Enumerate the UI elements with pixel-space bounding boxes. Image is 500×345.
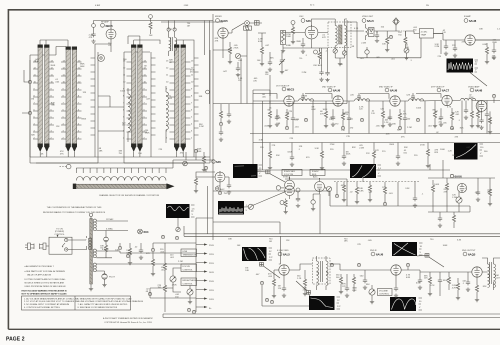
noise gate pot	[325, 186, 332, 196]
resistor R5a	[385, 34, 389, 52]
if grid line segments	[253, 94, 441, 99]
decoupling resistor R13	[426, 143, 430, 168]
trimmer TP	[235, 53, 247, 58]
ant terminal	[60, 164, 71, 169]
snd if label	[370, 250, 384, 257]
svg-text:1.2K: 1.2K	[384, 122, 389, 124]
tuner shield box 2	[124, 50, 210, 163]
capacitor C6	[453, 40, 457, 57]
osc caps pair	[319, 68, 329, 82]
svg-text:6.8K: 6.8K	[258, 41, 263, 43]
oscillator coil L2 loop chain	[128, 88, 130, 142]
grid resistor R43	[456, 278, 460, 300]
turret right parts	[183, 149, 207, 172]
osc adj resistor	[313, 50, 322, 67]
snd output label	[462, 250, 476, 257]
contact ticks wafer S1A right	[49, 62, 54, 139]
svg-text:12K: 12K	[424, 278, 428, 280]
snd tube drops	[283, 275, 285, 282]
socket circle	[98, 55, 105, 62]
wire tuner top	[40, 21, 213, 56]
divider cluster R9	[227, 104, 231, 123]
decoupling resistor R11	[320, 143, 324, 170]
svg-text:OSC: OSC	[299, 16, 304, 18]
resistor R6	[485, 43, 489, 64]
leader line from J	[362, 178, 364, 182]
leader glyph F	[260, 263, 281, 279]
if tube V6	[284, 96, 294, 106]
wire bottom tie lines	[30, 157, 210, 163]
oscillogram A	[447, 59, 488, 87]
svg-text:FOCUS: FOCUS	[183, 266, 191, 268]
svg-text:USED PROPER ALTERED IS SEE DES: USED PROPER ALTERED IS SEE DESIGN	[25, 285, 66, 288]
svg-text:MODELS WHEN DOTTED IN PARTS A: MODELS WHEN DOTTED IN PARTS ARE	[25, 281, 65, 284]
keyer resistor R27	[488, 184, 492, 206]
switch wafer S1C strip b	[137, 45, 142, 153]
peaking coil L10	[461, 98, 476, 100]
turret shaft bar	[73, 183, 175, 189]
svg-text:NOT TO OPERATE WITHOUT SAFETY: NOT TO OPERATE WITHOUT SAFETY GLASS	[22, 293, 68, 296]
svg-text:1. AC VOLTAGE MEASUREMENTS ARE: 1. AC VOLTAGE MEASUREMENTS ARE AT 117VAC…	[24, 297, 79, 300]
svg-text:12K: 12K	[286, 240, 290, 242]
video amp label	[468, 86, 483, 93]
svg-text:BRIGHTNESS: BRIGHTNESS	[183, 280, 197, 282]
svg-text:390K: 390K	[296, 41, 301, 43]
decoupling capacitor C14	[342, 143, 346, 166]
peaking coil L9	[409, 99, 424, 101]
det bottom wire	[357, 38, 421, 58]
node t1	[161, 235, 178, 239]
svg-text:255V: 255V	[209, 263, 214, 265]
svg-text:PAGE 2: PAGE 2	[6, 337, 25, 343]
oscillogram B	[454, 143, 484, 160]
border frame bottom	[8, 328, 500, 330]
wire bottom rail topmid	[213, 20, 347, 104]
if rail 2	[253, 142, 500, 144]
svg-text:27K: 27K	[346, 136, 350, 138]
contact ticks wafer S1B right	[77, 62, 82, 139]
svg-text:6AU6: 6AU6	[390, 89, 398, 93]
video det coil L11	[366, 24, 368, 40]
svg-text:6BC5: 6BC5	[287, 88, 295, 92]
svg-text:12K: 12K	[406, 95, 410, 97]
svg-text:4.7K: 4.7K	[430, 285, 435, 287]
output bias parts	[466, 272, 479, 302]
osc transformer T3 dashed box	[328, 19, 351, 51]
resistor R2	[258, 33, 266, 66]
sync sep tube V14	[285, 177, 295, 199]
wire plate rail	[213, 23, 262, 104]
svg-text:33K: 33K	[199, 96, 203, 98]
svg-text:COPYRIGHT W. Howard W. Sams &: COPYRIGHT W. Howard W. Sams & Co., Inc. …	[104, 321, 152, 324]
svg-text:140V: 140V	[209, 272, 214, 274]
resistor R5	[404, 31, 409, 60]
svg-text:A PHOTOFACT STANDARD NOTATION: A PHOTOFACT STANDARD NOTATION SCHEMATIC	[103, 317, 153, 320]
svg-text:THERMISTOR: THERMISTOR	[183, 254, 197, 256]
svg-text:THE COOPERATION OF THE MANUFAC: THE COOPERATION OF THE MANUFACTURER OF T…	[47, 206, 102, 209]
svg-text:105V: 105V	[209, 299, 214, 301]
stage 1 components	[268, 101, 295, 134]
svg-text:18K: 18K	[99, 151, 103, 153]
divider cluster R8	[219, 104, 223, 141]
snd if tube V11	[391, 265, 401, 275]
volume label box	[378, 289, 393, 296]
sound section top double rail	[184, 226, 500, 236]
if bottom rail	[253, 164, 450, 170]
takeoff parts	[194, 166, 231, 194]
stage 3 components	[381, 101, 407, 134]
svg-text:33K: 33K	[405, 47, 409, 49]
svg-text:2. DC VOLT AT 20,000 OHM PER V: 2. DC VOLT AT 20,000 OHM PER VOLT TO CHA…	[24, 300, 80, 303]
discriminator transformer T6	[313, 256, 331, 290]
svg-text:6AQ5: 6AQ5	[468, 253, 476, 257]
antenna terminals	[28, 60, 31, 157]
pilot tube label	[138, 229, 149, 234]
rf coil L4 loop chain	[166, 86, 168, 143]
decoupling resistor R12	[372, 143, 376, 170]
svg-text:6AU6: 6AU6	[455, 175, 463, 179]
focus pot	[170, 272, 176, 287]
svg-text:4 BW: 4 BW	[95, 5, 100, 7]
svg-text:4.7K: 4.7K	[452, 288, 457, 290]
output transformer T7	[482, 258, 500, 290]
keyer cluster resistor R24	[431, 180, 434, 198]
svg-text:5%: 5%	[369, 192, 372, 194]
svg-text:82K: 82K	[483, 286, 487, 288]
svg-text:DOTTED IN PARTS ARE NOT USED I: DOTTED IN PARTS ARE NOT USED IN ALL	[25, 278, 67, 281]
svg-text:18K: 18K	[392, 123, 396, 125]
svg-text:1M: 1M	[187, 26, 190, 28]
svg-text:2.2M: 2.2M	[452, 197, 457, 199]
rf input transformer T1	[167, 28, 177, 56]
svg-text:27K: 27K	[452, 45, 456, 47]
peaking coil L7	[299, 99, 314, 101]
svg-text:82K: 82K	[397, 130, 401, 132]
audio line	[289, 264, 472, 272]
svg-text:27K: 27K	[342, 286, 346, 288]
svg-text:10K: 10K	[40, 154, 44, 156]
svg-text:12K: 12K	[238, 80, 242, 82]
ac interlock plug	[25, 243, 46, 250]
svg-text:5%: 5%	[100, 248, 103, 250]
contact ticks wafer S1C right	[142, 62, 147, 139]
svg-text:10K: 10K	[257, 60, 261, 62]
svg-text:47K: 47K	[320, 114, 324, 116]
control label box 1	[181, 249, 197, 257]
svg-text:82K: 82K	[286, 112, 290, 114]
decoupling resistor R10	[268, 143, 272, 170]
svg-text:52 C: 52 C	[310, 5, 315, 7]
svg-text:27K: 27K	[438, 56, 442, 58]
svg-text:18K: 18K	[228, 239, 232, 241]
svg-text:47K: 47K	[444, 191, 448, 193]
power switch box	[49, 235, 72, 254]
svg-text:18K: 18K	[479, 28, 483, 30]
svg-text:18K: 18K	[344, 241, 348, 243]
stage 2 components	[324, 101, 351, 134]
brightness pot	[187, 286, 193, 304]
svg-text:3. NO SIGNAL INPUT CONTRAST AT: 3. NO SIGNAL INPUT CONTRAST AT MINIMUM	[24, 303, 69, 306]
svg-text:RECEIVER MAKES IT POSSIBLE TO: RECEIVER MAKES IT POSSIBLE TO BRING YOU …	[43, 211, 106, 214]
svg-text:TO ON: TO ON	[56, 229, 63, 231]
svg-text:390K: 390K	[145, 132, 150, 134]
if tube V9	[442, 95, 452, 105]
svg-text:100K: 100K	[120, 91, 125, 93]
svg-text:7. ALL CAPACITY VALUES IN MFD: 7. ALL CAPACITY VALUES IN MFD UNLESS NOT…	[78, 303, 128, 306]
oscillogram I	[392, 242, 423, 256]
svg-text:3.3K: 3.3K	[303, 95, 308, 97]
wires heater zone	[120, 243, 196, 312]
svg-text:5. MEASURED WITH CAPACITOR INP: 5. MEASURED WITH CAPACITOR INPUT AND NO …	[78, 297, 133, 300]
heater resistor R30	[128, 243, 132, 265]
agc label small	[215, 187, 225, 191]
turret coil row L6	[76, 177, 166, 181]
resistor R1	[228, 42, 232, 64]
svg-text:MIXER: MIXER	[215, 16, 222, 18]
svg-text:47K: 47K	[462, 42, 466, 44]
agc keyer tube V16	[457, 183, 466, 192]
capacitor C5	[444, 40, 448, 55]
wire osc	[283, 19, 347, 68]
svg-text:6AU6: 6AU6	[376, 253, 384, 257]
svg-text:100K: 100K	[440, 149, 445, 151]
switch wafer S1B strip b	[72, 47, 77, 153]
audio resistor R42	[352, 274, 355, 292]
svg-text:3.3K: 3.3K	[259, 139, 264, 141]
svg-text:12K: 12K	[265, 74, 269, 76]
wire strip drops	[40, 145, 194, 157]
svg-text:270K: 270K	[172, 284, 177, 286]
svg-text:AGC: AGC	[313, 176, 318, 179]
oscillogram F	[242, 247, 273, 261]
svg-text:18K: 18K	[487, 192, 491, 194]
svg-text:8. SEE PAGE 5 FOR WAVEFORM NOT: 8. SEE PAGE 5 FOR WAVEFORM NOTES	[78, 306, 118, 309]
det input parts	[260, 281, 330, 306]
svg-text:390K: 390K	[81, 118, 86, 120]
sync top rail	[285, 177, 347, 234]
svg-text:VOLUME: VOLUME	[379, 291, 388, 293]
svg-text:6.8K: 6.8K	[406, 277, 411, 279]
svg-text:5%: 5%	[299, 58, 302, 60]
peaking coil L8	[355, 99, 370, 101]
svg-text:2.2M: 2.2M	[407, 127, 412, 129]
if rail verticals	[253, 90, 270, 170]
svg-text:117VAC: 117VAC	[106, 218, 114, 221]
power transformer T5	[87, 213, 97, 291]
svg-text:FINE: FINE	[286, 45, 291, 47]
svg-text:CONTROL: CONTROL	[183, 283, 194, 285]
svg-text:3.3K: 3.3K	[405, 188, 410, 190]
contact ticks wafer S1D right	[185, 62, 190, 139]
sound takeoff tube V17	[215, 171, 225, 183]
svg-text:6AU8: 6AU8	[469, 19, 477, 23]
oscillogram E	[233, 164, 262, 178]
svg-text:2.2M: 2.2M	[361, 42, 366, 44]
snd output tube V12	[472, 267, 482, 277]
snd if gnd	[394, 286, 398, 297]
svg-text:27K: 27K	[382, 187, 386, 189]
keyer cluster resistor R25	[445, 178, 448, 196]
svg-text:2.2M: 2.2M	[178, 261, 183, 263]
svg-text:270K: 270K	[330, 144, 335, 146]
svg-text:1.2K: 1.2K	[478, 112, 483, 114]
svg-text:270K: 270K	[469, 97, 474, 99]
capacitor C3	[301, 38, 305, 53]
svg-text:2.2M: 2.2M	[302, 72, 307, 74]
svg-text:250V: 250V	[209, 245, 214, 247]
svg-text:VIDEO DET: VIDEO DET	[362, 16, 374, 18]
svg-text:CONTROL: CONTROL	[54, 234, 65, 236]
svg-text:1M: 1M	[31, 98, 34, 100]
transformer taps	[96, 221, 196, 271]
svg-text:250V: 250V	[209, 281, 214, 283]
node B2	[206, 90, 210, 94]
svg-text:♦ SEE PARTS LIST FOR DIAL ALTE: ♦ SEE PARTS LIST FOR DIAL ALTERNATE	[25, 270, 66, 273]
svg-text:HIGH VOLTAGE WARNING THIS RECE: HIGH VOLTAGE WARNING THIS RECEIVER IS	[22, 289, 68, 292]
svg-text:100K: 100K	[416, 108, 421, 110]
leader glyph G	[296, 281, 311, 296]
osc trimmer nodes	[333, 49, 347, 66]
svg-text:12K: 12K	[83, 92, 87, 94]
switch wafer S1A strip a	[38, 45, 43, 153]
turret coil row ticks	[76, 168, 166, 173]
sync sep label	[283, 177, 289, 179]
leader glyph E	[266, 170, 270, 174]
turret drop wire	[207, 186, 209, 234]
svg-text:6AL5: 6AL5	[367, 19, 374, 23]
1st video if label	[276, 86, 295, 92]
capacitor C2	[268, 52, 272, 71]
grid cap C11	[357, 93, 361, 101]
svg-text:270K: 270K	[420, 144, 425, 146]
agc cap C20	[413, 192, 417, 207]
heater chain parts	[151, 243, 155, 276]
svg-text:82K: 82K	[434, 152, 438, 154]
svg-text:6AK5: 6AK5	[221, 19, 229, 23]
takeoff tube label	[212, 160, 221, 164]
svg-text:2.2M: 2.2M	[435, 46, 440, 48]
keyer cap C21	[476, 186, 480, 201]
svg-text:47K: 47K	[455, 137, 459, 139]
svg-text:82K: 82K	[460, 127, 464, 129]
agc resistor R22	[368, 182, 372, 202]
svg-text:100K: 100K	[80, 66, 85, 68]
trimmer capacitor C4	[279, 52, 285, 74]
resistor R4	[375, 31, 379, 43]
svg-text:27K: 27K	[450, 129, 454, 131]
oscillogram G	[309, 296, 341, 310]
noise gate parts	[311, 194, 320, 211]
svg-text:CONTROL: CONTROL	[183, 269, 194, 271]
resistor R31	[163, 258, 166, 276]
crystal box	[255, 21, 260, 26]
svg-text:27K: 27K	[366, 153, 370, 155]
svg-text:10K: 10K	[115, 249, 119, 251]
pilot lamp 2	[101, 271, 116, 287]
noise gate label	[313, 176, 318, 179]
svg-text:IF AGC ADJ: IF AGC ADJ	[284, 170, 295, 173]
svg-text:390K: 390K	[389, 144, 394, 146]
svg-text:390K: 390K	[443, 280, 448, 282]
switch wafer S1C strip a	[131, 45, 136, 153]
interstage parts 4th if	[464, 101, 474, 128]
capacitor C1	[236, 62, 240, 77]
svg-text:2.2M: 2.2M	[199, 126, 204, 128]
resistor R32	[163, 280, 166, 298]
svg-text:47K: 47K	[403, 113, 407, 115]
svg-text:39K: 39K	[451, 112, 455, 114]
wire tuner left entry	[22, 47, 66, 114]
svg-text:27K: 27K	[357, 244, 361, 246]
4th video if label	[431, 87, 450, 93]
heater node c	[126, 253, 151, 296]
svg-text:100K: 100K	[443, 245, 448, 247]
leader line from E	[258, 172, 286, 183]
oscillogram J	[350, 164, 382, 178]
svg-text:6.8K: 6.8K	[416, 283, 421, 285]
b plus riser	[196, 218, 213, 312]
leader glyph I	[417, 254, 444, 268]
snd det tube V10	[279, 265, 289, 275]
svg-text:82K: 82K	[31, 134, 35, 136]
svg-text:47K: 47K	[375, 150, 379, 152]
svg-text:.047: .047	[496, 277, 500, 279]
leader line from C	[177, 218, 179, 227]
snd if components	[418, 272, 451, 296]
svg-text:270K: 270K	[303, 290, 308, 292]
sync parts R50	[276, 186, 288, 214]
rf coil L3 comb	[151, 52, 156, 145]
svg-text:100K: 100K	[287, 152, 292, 154]
svg-text:6AL5: 6AL5	[283, 253, 290, 257]
svg-text:27K: 27K	[290, 138, 294, 140]
svg-text:6AC7: 6AC7	[442, 89, 450, 93]
svg-text:27K: 27K	[272, 145, 276, 147]
leader line from D	[244, 192, 286, 208]
agc bus label box 2	[310, 169, 325, 176]
heater cap C30	[139, 243, 143, 259]
noise gate tube V15	[315, 178, 325, 194]
video amp cluster	[476, 94, 496, 133]
svg-text:.1 MF: .1 MF	[183, 5, 189, 7]
svg-text:270K: 270K	[234, 48, 239, 50]
osc tube V3 6J6	[299, 16, 318, 39]
agc resistor R23	[383, 182, 386, 206]
agc rail	[330, 182, 470, 207]
osc left grid box	[281, 21, 296, 53]
video det label	[362, 16, 374, 23]
wire box link	[98, 96, 124, 131]
if tube V7	[333, 96, 343, 106]
b plus arrows	[196, 243, 214, 310]
if agc node circles	[304, 118, 419, 121]
svg-text:4.7K: 4.7K	[447, 106, 452, 108]
keyer tube label	[450, 174, 462, 178]
tuner shield box	[30, 52, 98, 163]
svg-text:10K: 10K	[382, 44, 386, 46]
video amp tube V13	[476, 101, 487, 112]
contact ticks wafer S1D left	[170, 62, 175, 139]
det input riser	[279, 236, 281, 264]
if rail 1	[250, 133, 500, 135]
svg-text:47K: 47K	[89, 37, 93, 39]
2nd video if label	[322, 87, 341, 93]
wires sound misc	[395, 275, 397, 286]
contact ticks wafer S1B left	[61, 62, 66, 139]
terminal J1	[91, 24, 95, 44]
if drops extra	[313, 101, 462, 134]
oscillator coil L1 comb	[91, 52, 96, 145]
